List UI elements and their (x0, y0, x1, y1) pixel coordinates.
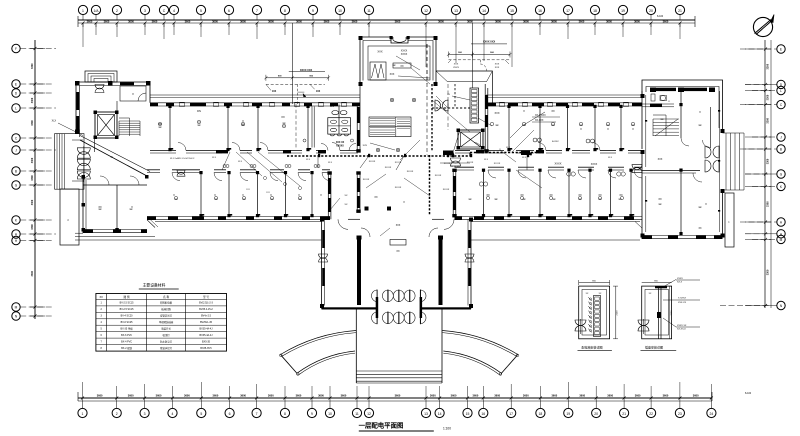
svg-text:3600: 3600 (87, 19, 93, 23)
svg-text:XLX: XLX (328, 162, 333, 164)
corridor cable tray dashed line (170, 153, 543, 161)
far-right bathroom fixtures (651, 94, 670, 103)
svg-text:暗装开关: 暗装开关 (161, 326, 171, 330)
svg-text:X XXXX: X XXXX (678, 298, 686, 300)
grand staircase central hall (369, 117, 411, 137)
svg-text:3300: 3300 (767, 269, 770, 275)
legend table rows text (101, 301, 214, 350)
bottom axis dimension line (78, 382, 752, 401)
vestibule walls (356, 309, 442, 384)
svg-text:3600: 3600 (634, 19, 640, 23)
svg-text:3300: 3300 (31, 63, 34, 69)
svg-text:3300: 3300 (767, 117, 770, 123)
riser diagram 2 bowtie (638, 319, 649, 334)
svg-text:插座回路: 插座回路 (161, 307, 171, 311)
svg-text:L: L (780, 89, 782, 93)
svg-text:3300: 3300 (31, 175, 34, 181)
hall annotation leaders (363, 140, 470, 168)
svg-text:XLX: XLX (212, 157, 217, 159)
legend table title (139, 283, 179, 290)
distribution panel riser strip (470, 88, 479, 123)
svg-text:3600: 3600 (579, 19, 585, 23)
entrance hall east wall (465, 218, 474, 309)
svg-text:F: F (15, 47, 17, 51)
svg-text:XXXX: XXXX (453, 67, 459, 69)
svg-text:3600: 3600 (663, 19, 669, 23)
legend table header text (99, 295, 209, 299)
svg-text:4: 4 (173, 9, 175, 13)
svg-text:XX: XX (281, 115, 285, 119)
svg-text:9: 9 (311, 412, 313, 416)
curved ramp left end cap (280, 354, 300, 375)
svg-text:BX5-35: BX5-35 (202, 340, 211, 343)
svg-text:3600: 3600 (352, 19, 358, 23)
svg-text:BV25x1-45: BV25x1-45 (200, 321, 212, 324)
svg-text:图 例: 图 例 (124, 295, 130, 299)
svg-text:3600: 3600 (693, 393, 699, 397)
door marks bottom band left (223, 165, 320, 168)
svg-text:XX: XX (658, 198, 662, 201)
svg-text:19: 19 (566, 412, 570, 416)
svg-text:15: 15 (466, 412, 470, 416)
svg-text:BX-35 单极: BX-35 单极 (121, 326, 134, 330)
svg-text:13: 13 (454, 9, 458, 13)
svg-text:BX35-4A-4J: BX35-4A-4J (200, 327, 214, 330)
left wing top band partitions (168, 105, 309, 151)
svg-text:XXX: XXX (495, 64, 500, 66)
svg-text:XXX-XX: XXX-XX (678, 302, 687, 304)
svg-text:X X: X X (246, 189, 250, 191)
svg-text:13: 13 (424, 412, 428, 416)
svg-text:XX-XX: XX-XX (435, 175, 442, 177)
svg-text:3600: 3600 (579, 393, 585, 397)
central top block door notch (393, 37, 406, 42)
entrance door openings top (338, 219, 454, 229)
svg-text:3600: 3600 (268, 393, 274, 397)
svg-text:3600: 3600 (128, 393, 134, 397)
svg-text:14: 14 (438, 412, 442, 416)
svg-text:XX: XX (374, 196, 378, 199)
north arrow compass (753, 15, 774, 37)
svg-text:XXX: XXX (494, 112, 499, 115)
riser diagram 2 conduit (655, 286, 667, 339)
svg-text:3600: 3600 (296, 19, 302, 23)
svg-text:3600: 3600 (152, 19, 158, 23)
grid leader lines from top axis (83, 23, 680, 84)
svg-text:B: B (780, 148, 782, 152)
far-right block window wall dark segments (656, 88, 707, 91)
svg-text:3600: 3600 (212, 19, 218, 23)
svg-text:XXX: XXX (658, 158, 663, 161)
riser diagram 1 label (578, 344, 612, 350)
riser diagram 2 label (641, 344, 677, 350)
feeder riser leader left wing (264, 23, 330, 104)
riser diagram 1 terminal strip (588, 296, 601, 337)
svg-text:1XX: 1XX (272, 91, 277, 93)
svg-text:2100: 2100 (617, 310, 619, 316)
svg-text:3600: 3600 (451, 393, 457, 397)
corridor bowtie below tray (444, 158, 501, 166)
svg-text:BV(2.5)1-2-3: BV(2.5)1-2-3 (199, 302, 213, 305)
svg-text:7: 7 (256, 9, 258, 13)
svg-text:3: 3 (144, 9, 146, 13)
junction boxes on tray (318, 151, 530, 158)
top axis grid bubbles (78, 5, 684, 20)
drawing title (359, 421, 452, 432)
annotation cluster dimension rows (447, 52, 512, 71)
electrical room east wall (484, 84, 488, 153)
svg-text:XX-XXX: XX-XXX (535, 120, 544, 122)
entrance south walls (322, 307, 472, 309)
svg-text:3600: 3600 (438, 19, 444, 23)
svg-text:XX: XX (396, 250, 400, 253)
svg-text:3600: 3600 (128, 19, 134, 23)
svg-text:3600: 3600 (430, 393, 436, 397)
svg-text:名 称: 名 称 (163, 295, 169, 299)
svg-text:XXXXX: XXXXX (336, 146, 344, 148)
svg-text:19: 19 (621, 9, 625, 13)
room labels right wing bottom band (486, 162, 623, 198)
svg-text:3600: 3600 (494, 393, 500, 397)
svg-text:XXXX XXX: XXXX XXX (483, 41, 496, 44)
svg-text:8: 8 (284, 9, 286, 13)
curved ramp left inner arc (297, 351, 355, 375)
svg-text:3300: 3300 (31, 224, 34, 230)
svg-text:1XX: 1XX (316, 91, 321, 93)
svg-text:XXX: XXX (454, 64, 459, 66)
right apron walkway (471, 222, 642, 241)
wiring drops from tray (318, 130, 527, 170)
svg-text:21: 21 (622, 412, 626, 416)
svg-text:3300: 3300 (767, 63, 770, 69)
junction dots corridor (447, 149, 532, 164)
svg-text:5: 5 (200, 9, 202, 13)
right wing top band room labels and door marks (479, 110, 634, 186)
left wing bottom band partitions (199, 171, 313, 217)
svg-text:BV25.4-15-2: BV25.4-15-2 (199, 308, 213, 311)
scattered annotation texts central hall (363, 161, 450, 196)
svg-text:5: 5 (200, 412, 202, 416)
riser diagram 1 dimensions (579, 280, 619, 339)
room name labels density (99, 65, 702, 211)
svg-text:E: E (15, 83, 17, 87)
central elevator (457, 129, 485, 150)
svg-text:E: E (780, 48, 782, 52)
svg-text:XX XX: XX XX (444, 163, 451, 165)
svg-text:XX-XX-X: XX-XX-X (677, 329, 686, 331)
svg-text:XXXX: XXXX (555, 162, 562, 166)
svg-text:照明配电箱: 照明配电箱 (160, 301, 173, 305)
far-left block outer walls (75, 81, 151, 137)
svg-text:XLX: XLX (522, 157, 527, 159)
svg-text:3600: 3600 (296, 393, 302, 397)
revolving doors row 1 (372, 290, 427, 302)
right axis grid bubbles (720, 45, 785, 310)
svg-text:3600: 3600 (185, 19, 191, 23)
reception mark in entrance hall (390, 240, 406, 254)
panel leader annotations (447, 94, 492, 126)
svg-text:XX XX: XX XX (494, 163, 501, 165)
curved ramp right inner arc (443, 351, 501, 375)
hall dashed feeder vertical (429, 155, 431, 215)
svg-text:XX: XX (400, 65, 404, 68)
right wing north parapet and wall (436, 71, 642, 107)
svg-text:3600: 3600 (495, 19, 501, 23)
svg-text:型 号: 型 号 (203, 295, 209, 299)
svg-text:16: 16 (481, 412, 485, 416)
window bowtie in far-left block top wall (95, 85, 104, 93)
svg-text:XX-XX: XX-XX (443, 189, 450, 191)
revolving doors frame (376, 290, 422, 325)
svg-text:2100: 2100 (671, 310, 673, 316)
central block label box (393, 63, 430, 84)
svg-text:1: 1 (82, 412, 84, 416)
central block annotation texts (390, 50, 430, 79)
wiring leaders left wing (222, 152, 302, 194)
left apron walkway (75, 220, 322, 240)
left wing corridor north wall (150, 143, 358, 154)
svg-text:XX-XX: XX-XX (395, 187, 402, 189)
svg-text:8-100: 8-100 (745, 392, 752, 395)
far-right side steps (723, 133, 745, 190)
left wing north wall with windows (150, 95, 360, 107)
svg-text:XX-X XXX: XX-X XXX (535, 115, 546, 117)
right wing corridor north wall (455, 143, 642, 154)
hall bowtie door symbol (435, 100, 448, 111)
svg-text:20: 20 (649, 9, 653, 13)
svg-text:防水防尘灯: 防水防尘灯 (160, 339, 173, 343)
left door bowties stack (77, 146, 90, 182)
svg-text:3300: 3300 (767, 158, 770, 164)
svg-text:3600: 3600 (213, 393, 219, 397)
elevator far-left (94, 111, 119, 140)
right wing bottom band partitions (482, 169, 633, 218)
riser diagram 2 box (642, 286, 672, 339)
svg-text:XX XX: XX XX (467, 162, 474, 164)
svg-text:DN: DN (197, 109, 201, 113)
svg-text:3600: 3600 (606, 19, 612, 23)
svg-text:XXX: XXX (390, 73, 395, 76)
left wing bottom band corridor wall (147, 170, 330, 181)
revolving doors row 2 (372, 312, 427, 324)
svg-text:XX: XX (551, 110, 555, 113)
svg-text:14: 14 (482, 9, 486, 13)
svg-text:18: 18 (593, 9, 597, 13)
svg-text:B-XXX: B-XXX (552, 141, 559, 143)
room labels left wing top band (158, 104, 334, 126)
svg-text:插座安装详图: 插座安装详图 (645, 344, 663, 349)
svg-text:6: 6 (228, 9, 230, 13)
feeder riser leader to roof (471, 23, 507, 88)
far-right staircase (653, 115, 679, 136)
roof stair block above far-left block (85, 71, 117, 82)
svg-text:3600: 3600 (341, 393, 347, 397)
svg-text:17: 17 (566, 9, 570, 13)
dimension annotation left of entrance (330, 195, 348, 210)
svg-text:12: 12 (367, 412, 371, 416)
svg-text:XX-X: XX-X (677, 282, 683, 284)
svg-text:3300: 3300 (31, 120, 34, 126)
top axis dimension line (78, 15, 695, 27)
svg-text:3600: 3600 (607, 393, 613, 397)
svg-text:3600: 3600 (663, 393, 669, 397)
scattered annotation texts corridor right (484, 147, 613, 162)
svg-text:3600: 3600 (551, 19, 557, 23)
svg-text:11: 11 (367, 9, 371, 13)
left axis dimension line (30, 40, 45, 319)
small room top of far-left block (117, 86, 146, 112)
svg-text:双管荧光灯: 双管荧光灯 (160, 314, 173, 318)
svg-text:3300: 3300 (31, 157, 34, 163)
staircase far-left (95, 118, 141, 152)
svg-text:4: 4 (172, 412, 174, 416)
svg-text:18: 18 (539, 412, 543, 416)
svg-text:XXXX XX: XXXX XX (677, 325, 687, 327)
svg-text:3600: 3600 (523, 393, 529, 397)
right porch column (725, 193, 734, 247)
right axis dimension line (745, 40, 771, 308)
bottom-left terrace steps (75, 233, 155, 236)
svg-text:BV-4 SC20: BV-4 SC20 (121, 315, 133, 318)
svg-text:X X: X X (266, 192, 270, 194)
svg-text:3300: 3300 (31, 270, 34, 276)
svg-text:3600: 3600 (156, 393, 162, 397)
right wing window bowtie on corridor (650, 163, 652, 165)
svg-text:B: B (15, 170, 17, 174)
svg-text:一层配电平面图: 一层配电平面图 (359, 421, 404, 430)
svg-text:16: 16 (538, 9, 542, 13)
svg-text:3: 3 (144, 412, 146, 416)
right wing top band partitions (507, 105, 622, 151)
svg-text:6: 6 (229, 412, 231, 416)
svg-text:3600: 3600 (268, 19, 274, 23)
far-right interior partitions (642, 91, 711, 235)
svg-text:XXXX: XXXX (591, 163, 598, 166)
svg-text:9: 9 (312, 9, 314, 13)
svg-text:3600: 3600 (318, 393, 324, 397)
curved ramp right outer arc (442, 331, 518, 357)
right wing interior fixtures (486, 122, 634, 199)
svg-text:3600: 3600 (395, 393, 401, 397)
svg-text:WC: WC (330, 104, 334, 108)
right wing south wall with windows (455, 216, 643, 220)
svg-text:XXX XX: XXX XX (336, 142, 345, 144)
svg-text:配电箱安装详图: 配电箱安装详图 (581, 344, 602, 349)
svg-text:XLX: XLX (306, 159, 311, 161)
left entrance porch column (60, 189, 79, 245)
left wing south wall with windows (147, 216, 330, 220)
svg-text:1: 1 (82, 9, 84, 13)
svg-text:BV4x-2.5: BV4x-2.5 (201, 315, 212, 318)
left porch floor connectors (72, 140, 83, 181)
svg-text:主要设备材料: 主要设备材料 (143, 283, 166, 288)
svg-text:BV-6 SC25: BV-6 SC25 (121, 321, 133, 324)
svg-text:3600: 3600 (635, 393, 641, 397)
svg-text:吸顶灯: 吸顶灯 (163, 333, 171, 337)
svg-text:XX-XX: XX-XX (363, 179, 370, 181)
svg-text:3600: 3600 (467, 19, 473, 23)
svg-text:BX35-35.5: BX35-35.5 (200, 347, 212, 350)
svg-text:XX-XX: XX-XX (407, 171, 414, 173)
svg-text:3600: 3600 (97, 393, 103, 397)
far-right room labels (658, 111, 708, 230)
curved ramp right end cap (499, 354, 519, 375)
svg-text:3600: 3600 (395, 19, 401, 23)
svg-text:XLX: XLX (608, 157, 613, 159)
svg-text:2: 2 (116, 9, 118, 13)
socket marks on walls (171, 110, 720, 216)
far-right block outer walls (641, 80, 725, 239)
svg-text:8-100: 8-100 (657, 15, 664, 18)
svg-text:壁装声控灯: 壁装声控灯 (160, 346, 173, 350)
left entrance steps ramp (55, 134, 84, 190)
diagonal leader in right wing room (510, 112, 598, 166)
hall electrical room dashed outline (432, 84, 470, 152)
svg-text:23: 23 (678, 412, 682, 416)
svg-text:XL1 2x4BV-1.5-SC15-FC: XL1 2x4BV-1.5-SC15-FC (170, 158, 195, 160)
svg-text:3300: 3300 (31, 199, 34, 205)
svg-text:17: 17 (509, 412, 513, 416)
small arrows bottom center (380, 225, 401, 236)
svg-text:XX-XX: XX-XX (385, 167, 392, 169)
svg-text:M: M (780, 238, 783, 242)
svg-text:7: 7 (256, 412, 258, 416)
svg-text:XX: XX (99, 295, 103, 299)
svg-text:22: 22 (649, 412, 653, 416)
svg-text:BX35-4A-4J: BX35-4A-4J (200, 334, 214, 337)
svg-text:XXX: XXX (363, 145, 368, 147)
svg-text:BX-6 PVC: BX-6 PVC (121, 334, 132, 337)
wiring leaders central (432, 96, 542, 188)
svg-text:BV-2.5 SC15: BV-2.5 SC15 (120, 302, 134, 305)
svg-text:10: 10 (338, 9, 342, 13)
svg-text:XLX: XLX (484, 159, 489, 161)
right wing bottom band west wall (452, 169, 456, 218)
hall south columns (365, 196, 406, 211)
riser diagram 2 leaders (663, 278, 700, 331)
svg-text:XX: XX (698, 228, 702, 230)
svg-text:12: 12 (424, 9, 428, 13)
svg-text:BV-2.5 SC15: BV-2.5 SC15 (120, 308, 134, 311)
svg-text:8: 8 (284, 412, 286, 416)
svg-text:XLX: XLX (238, 161, 243, 163)
entrance hall west wall (319, 218, 328, 309)
svg-text:X: X (132, 92, 134, 96)
hall grid dashed vertical (427, 44, 448, 155)
svg-text:24: 24 (710, 412, 714, 416)
svg-text:XX XX: XX XX (395, 162, 402, 164)
svg-text:20: 20 (594, 412, 598, 416)
svg-text:单相暗装插座: 单相暗装插座 (159, 320, 174, 324)
svg-text:3600: 3600 (104, 19, 110, 23)
diagonal corridor wall far-left (80, 136, 150, 177)
svg-text:3600: 3600 (324, 19, 330, 23)
svg-text:21: 21 (678, 9, 682, 13)
riser diagram 1 box (579, 286, 610, 339)
svg-text:10: 10 (328, 412, 332, 416)
svg-text:L: L (15, 107, 17, 111)
svg-text:3600: 3600 (184, 393, 190, 397)
svg-text:2: 2 (116, 412, 118, 416)
svg-text:3600: 3600 (523, 19, 529, 23)
svg-text:3600: 3600 (551, 393, 557, 397)
hall light fixtures (376, 98, 416, 152)
svg-text:1/A: 1/A (93, 9, 99, 13)
svg-text:XX-XX: XX-XX (369, 161, 376, 163)
svg-text:BX-4 PVC: BX-4 PVC (121, 340, 132, 343)
riser diagram 1 bowtie (575, 319, 586, 334)
central block closet with coil (370, 62, 386, 80)
